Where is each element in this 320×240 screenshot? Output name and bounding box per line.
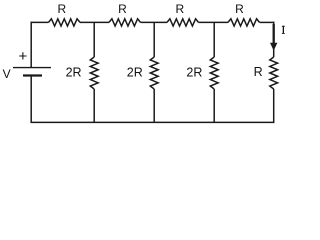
svg-text:2R: 2R xyxy=(186,66,202,80)
svg-text:2R: 2R xyxy=(66,66,82,80)
svg-text:R: R xyxy=(57,2,66,16)
svg-text:R: R xyxy=(254,65,263,79)
svg-text:2R: 2R xyxy=(127,66,143,80)
svg-text:R: R xyxy=(118,2,127,16)
svg-text:R: R xyxy=(235,2,244,16)
svg-text:V: V xyxy=(3,67,11,81)
svg-text:R: R xyxy=(175,2,184,16)
svg-text:+: + xyxy=(19,48,28,65)
